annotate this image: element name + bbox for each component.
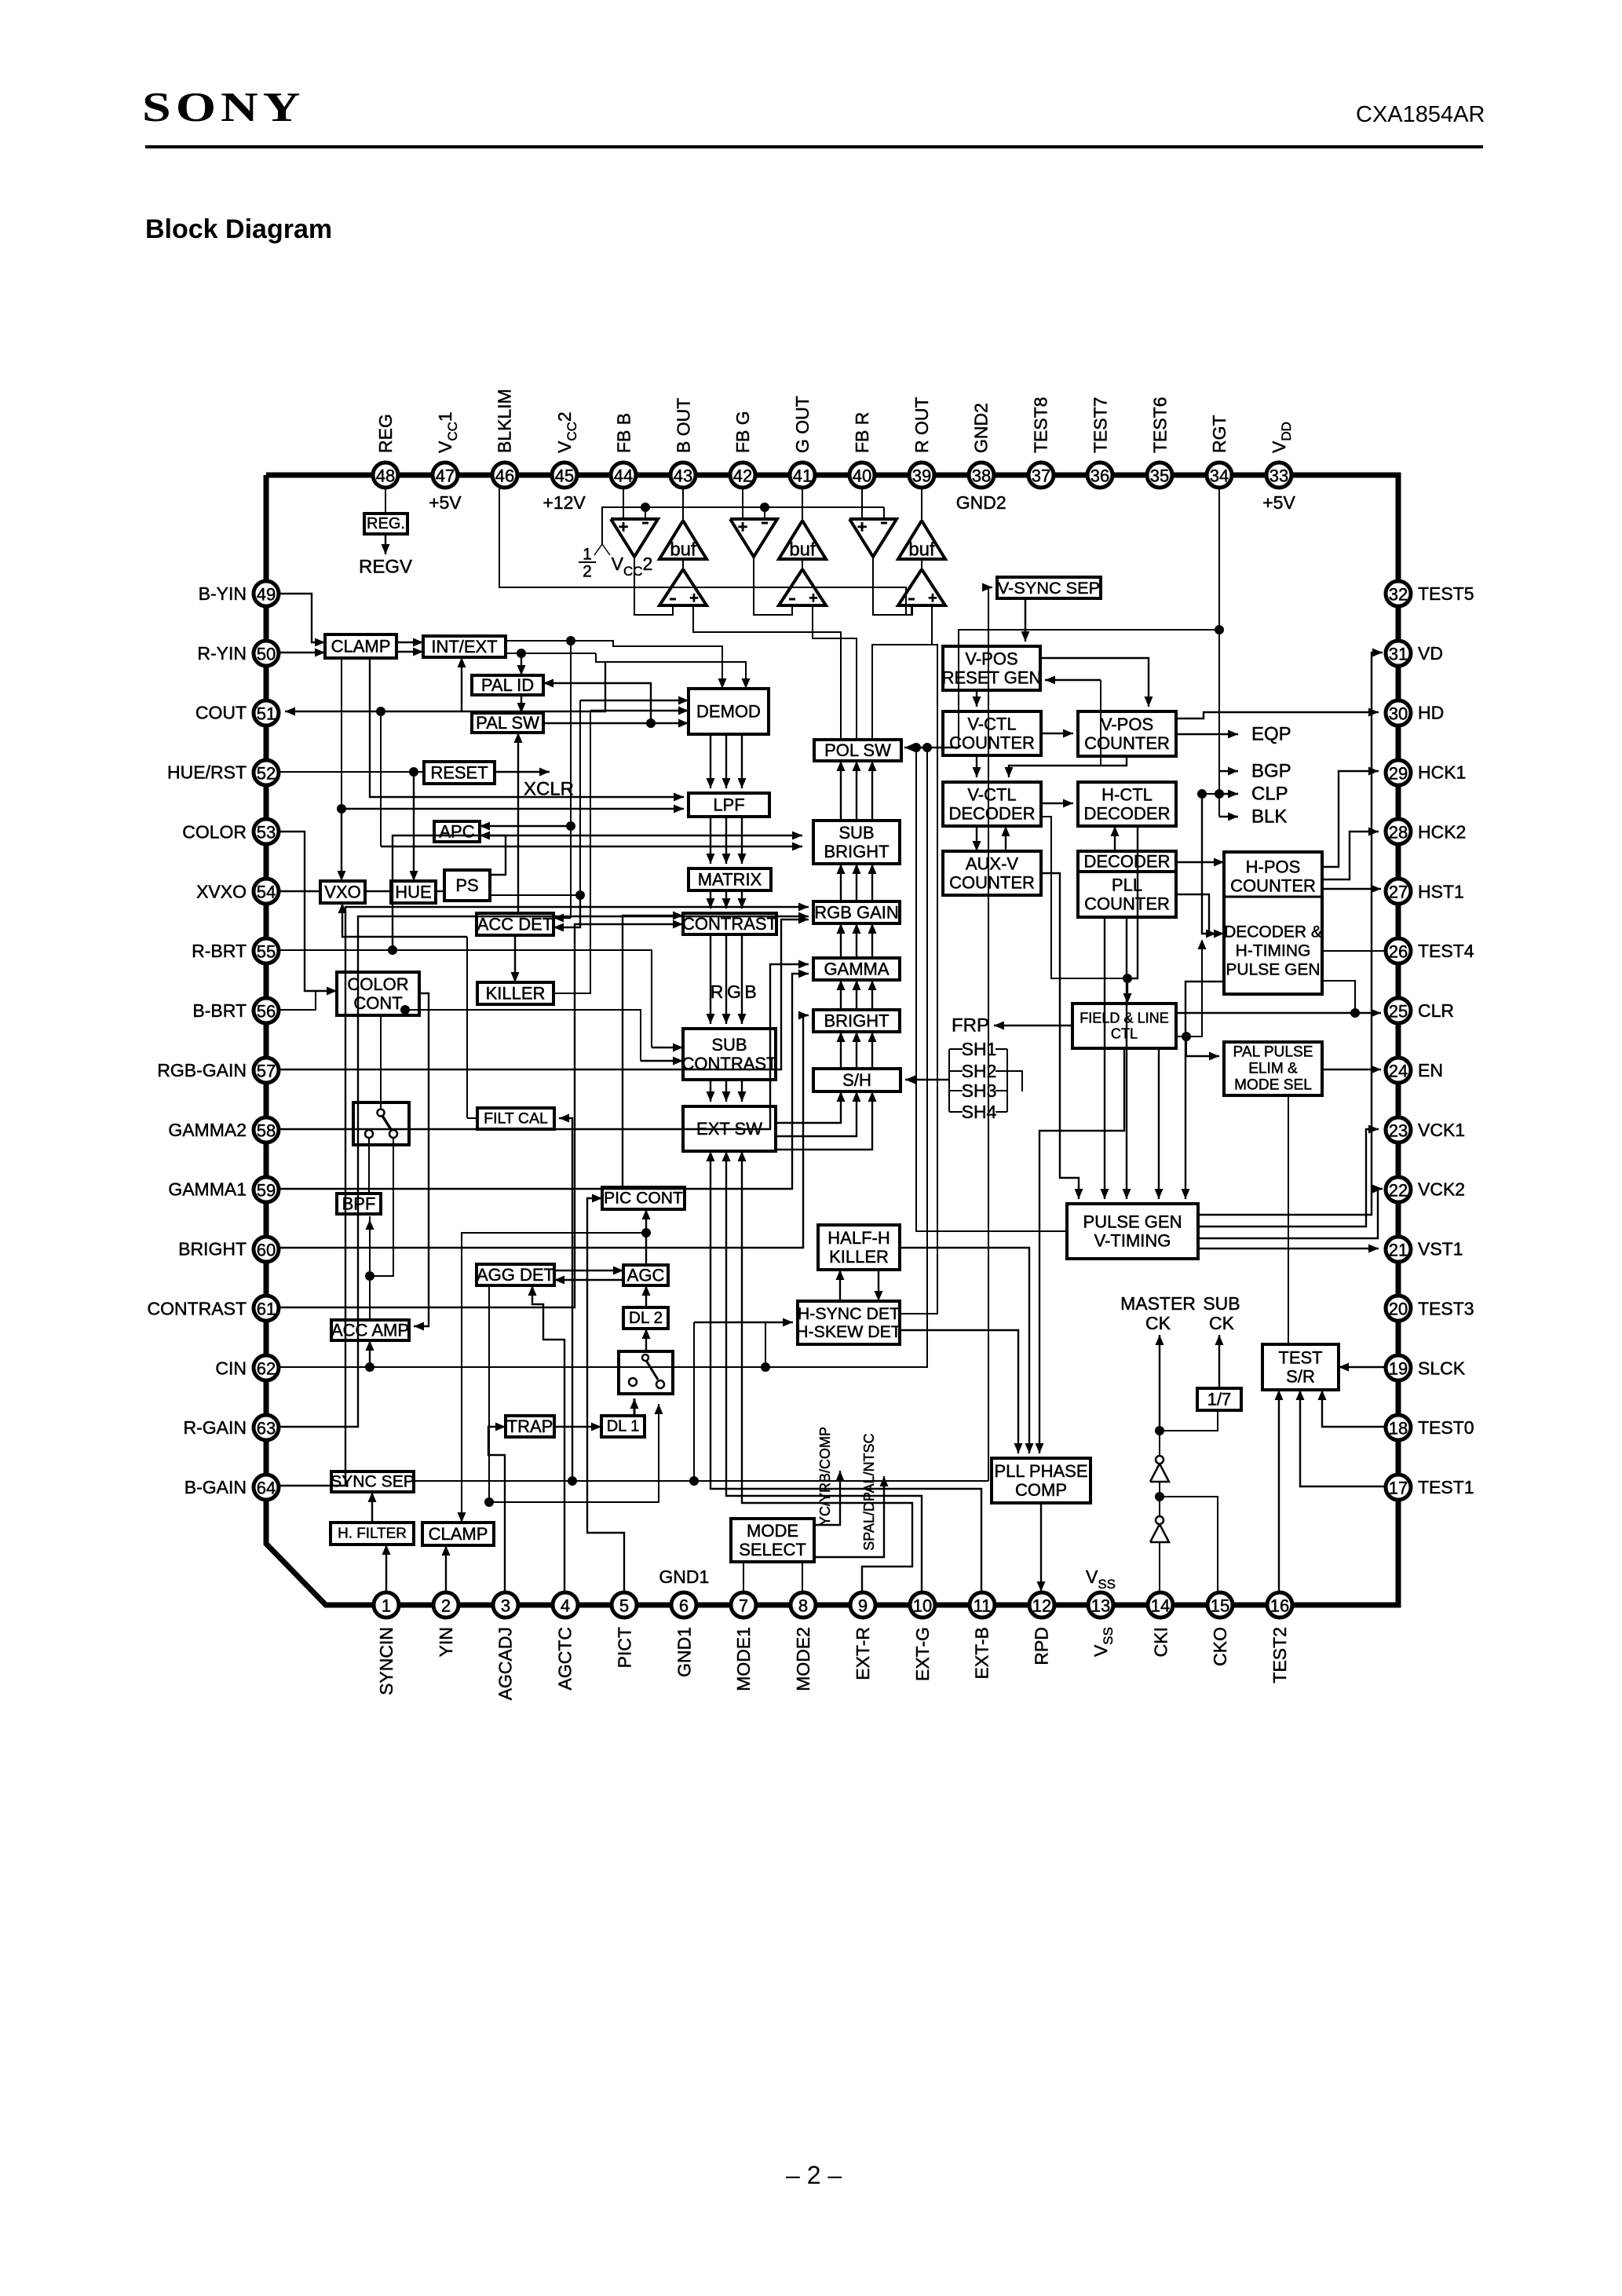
svg-text:SYNCIN: SYNCIN xyxy=(376,1627,396,1695)
svg-text:26: 26 xyxy=(1389,942,1408,962)
svg-text:TEST6: TEST6 xyxy=(1149,397,1170,453)
svg-text:30: 30 xyxy=(1389,704,1408,724)
wire pin18 TEST0 to TEST S/R xyxy=(1322,1390,1385,1427)
buffer buf G xyxy=(779,521,826,559)
wire CIN on to the right xyxy=(765,748,927,1367)
wire H FILTER to SYNC SEP xyxy=(371,1492,373,1523)
inverter 2 on CKI xyxy=(1150,1464,1169,1482)
wire buf to pin G OUT xyxy=(802,487,803,521)
wire S/H to BRIGHT x3 xyxy=(840,1032,842,1069)
pin 25 CLR xyxy=(1386,998,1411,1023)
wire feedback + B to POL SW column xyxy=(693,605,841,740)
pin 24 EN xyxy=(1386,1058,1411,1083)
svg-text:ACC AMP: ACC AMP xyxy=(331,1321,409,1340)
svg-text:BLKLIM: BLKLIM xyxy=(495,389,515,453)
feedback amp G xyxy=(779,569,826,605)
pin 29 HCK1 xyxy=(1386,760,1411,785)
pin 47 Vcc1 xyxy=(433,462,458,488)
svg-text:1: 1 xyxy=(583,546,592,564)
svg-text:REG.: REG. xyxy=(367,515,405,532)
wire RESET to XCLR xyxy=(495,771,550,773)
pin 39 R OUT xyxy=(909,462,934,488)
svg-text:AGC: AGC xyxy=(627,1266,665,1285)
wire pin61 CONTRAST to PIC CONT xyxy=(279,924,683,1307)
wire FRP from FIELD LINE CTL xyxy=(994,1025,1072,1026)
svg-text:55: 55 xyxy=(257,942,276,962)
svg-text:RPD: RPD xyxy=(1032,1627,1052,1665)
svg-text:+: + xyxy=(619,517,629,537)
PAL SW xyxy=(472,713,543,733)
wire DL2 to AGC xyxy=(645,1285,647,1307)
svg-text:18: 18 xyxy=(1389,1419,1408,1439)
svg-text:DECODER: DECODER xyxy=(948,804,1035,824)
wire REG to REGV xyxy=(385,487,386,514)
wire SH2 tail xyxy=(1007,1071,1022,1091)
PAL ID xyxy=(472,675,543,695)
svg-text:FB G: FB G xyxy=(732,411,753,453)
svg-text:CKO: CKO xyxy=(1210,1627,1230,1666)
wire SYNC SEP to V-SYNC SEP and H-SYNC DET xyxy=(414,1480,988,1482)
svg-text:TEST8: TEST8 xyxy=(1031,397,1051,453)
MATRIX xyxy=(689,868,771,890)
wire pin63 R-GAIN to RGB GAIN xyxy=(280,916,809,1427)
svg-text:CONTRAST: CONTRAST xyxy=(148,1298,247,1318)
svg-text:43: 43 xyxy=(674,466,692,486)
svg-text:PAL SW: PAL SW xyxy=(476,713,539,733)
op-amp B channel xyxy=(611,519,658,557)
svg-text:6: 6 xyxy=(679,1596,689,1616)
svg-text:H-SYNC DET: H-SYNC DET xyxy=(798,1304,900,1323)
pin 51 COUT xyxy=(254,700,279,726)
CONTRAST block xyxy=(683,913,776,934)
wire HUE to PS xyxy=(436,890,444,893)
svg-text:2: 2 xyxy=(441,1596,451,1616)
wire rail to op-amp - input B xyxy=(645,507,646,519)
wire switch S1 left contact to BPF top xyxy=(368,1138,370,1194)
svg-text:COLOR: COLOR xyxy=(347,974,408,994)
wire DECODER & H-TIMING to pin26 TEST4 xyxy=(1322,950,1385,952)
svg-text:YIN: YIN xyxy=(436,1627,456,1657)
svg-text:63: 63 xyxy=(257,1419,276,1439)
svg-text:SELECT: SELECT xyxy=(739,1540,806,1559)
svg-text:CK: CK xyxy=(1209,1313,1235,1333)
svg-text:10: 10 xyxy=(913,1596,932,1616)
pin 1 SYNCIN xyxy=(374,1592,399,1618)
svg-text:CLR: CLR xyxy=(1418,1000,1454,1021)
PLL PHASE COMP xyxy=(992,1458,1090,1503)
header rule xyxy=(145,145,1483,148)
wire op-amp output to feedback - B xyxy=(634,557,673,615)
svg-text:VCC2: VCC2 xyxy=(554,411,579,453)
wire CLP arrow xyxy=(1219,793,1238,795)
svg-text:PAL PULSE: PAL PULSE xyxy=(1233,1044,1313,1061)
wire to divider 1/7 xyxy=(1160,1410,1218,1431)
wire feedback + R to POL SW column xyxy=(872,605,932,740)
pin 12 RPD xyxy=(1029,1592,1054,1618)
wire POL SW up to feedback amps x3 xyxy=(840,632,842,740)
svg-text:DECODER: DECODER xyxy=(1083,852,1170,872)
H-SYNC DET H-SKEW DET xyxy=(798,1301,900,1344)
PS xyxy=(444,870,490,901)
pin 32 TEST5 xyxy=(1386,581,1411,606)
wire MODE SELECT pins 7 8 xyxy=(743,1562,744,1592)
wire rail to op-amp - input G xyxy=(764,507,765,519)
clamp CLAMP xyxy=(325,634,396,658)
wire RGT pin34 down to BGP CLP BLK xyxy=(1218,487,1220,817)
V-CTL DECODER xyxy=(943,782,1041,826)
svg-text:20: 20 xyxy=(1389,1300,1408,1319)
wire junction to PULSE GEN left xyxy=(911,743,921,752)
svg-text:62: 62 xyxy=(257,1359,276,1379)
inverter 1 on CKI xyxy=(1150,1524,1169,1542)
pin 10 EXT-G xyxy=(910,1592,935,1618)
svg-text:CK: CK xyxy=(1145,1313,1171,1333)
svg-text:HCK1: HCK1 xyxy=(1418,762,1466,783)
svg-text:buf: buf xyxy=(670,539,696,561)
svg-text:V-CTL: V-CTL xyxy=(967,784,1016,804)
pin 5 PICT xyxy=(612,1592,637,1618)
wire buf to pin B OUT xyxy=(682,487,684,521)
wire V-CTL COUNTER to V-POS COUNTER xyxy=(1041,733,1073,734)
wire PULSE GEN to pin23 VCK1 xyxy=(1198,1129,1379,1227)
svg-text:V-POS: V-POS xyxy=(965,649,1017,668)
svg-text:R-GAIN: R-GAIN xyxy=(184,1417,247,1438)
pin 31 VD xyxy=(1386,641,1411,666)
wire AGC PIC CONT link xyxy=(645,1209,647,1265)
wire VXO to HUE xyxy=(365,890,391,893)
switch box S1 xyxy=(353,1102,409,1145)
svg-text:35: 35 xyxy=(1150,466,1169,486)
svg-text:TEST3: TEST3 xyxy=(1418,1298,1474,1318)
wire COLOR CONT to switch S1 xyxy=(380,1015,382,1110)
wire MODE SELECT to SPAL/DPAL/NTSC xyxy=(814,1476,884,1557)
pin 45 Vcc2 xyxy=(552,462,577,488)
svg-text:MODE: MODE xyxy=(747,1521,798,1541)
svg-text:+: + xyxy=(689,590,699,607)
wire SUB CONTRAST to EXT SW x3 xyxy=(710,1080,711,1102)
wire junction to switch S1 right contact xyxy=(370,1138,393,1276)
wire FIELD CTL down to PULSE GEN xyxy=(1158,1048,1160,1199)
svg-text:SYNC SEP: SYNC SEP xyxy=(331,1473,415,1491)
svg-text:33: 33 xyxy=(1269,466,1288,486)
wire pin2 YIN to CLAMP2 xyxy=(445,1545,447,1592)
svg-text:PS: PS xyxy=(455,876,478,895)
wire branch to CLAMP2 xyxy=(462,1233,646,1512)
svg-text:16: 16 xyxy=(1270,1596,1289,1616)
pin 40 FB R xyxy=(849,462,875,488)
SONY logo xyxy=(142,84,305,132)
wire INT/EXT out B to DEMOD xyxy=(506,653,596,654)
H. FILTER xyxy=(331,1523,414,1545)
svg-text:COUT: COUT xyxy=(195,703,247,723)
V-POS COUNTER xyxy=(1078,711,1176,756)
wire pin14 CKI chain xyxy=(1159,1542,1160,1592)
demodulator DEMOD xyxy=(689,689,769,734)
pin 44 FB B xyxy=(611,462,636,488)
wire PAL PULSE to pin24 EN xyxy=(1322,1069,1381,1070)
svg-text:H-CTL: H-CTL xyxy=(1101,784,1153,804)
wire pin52 to RESET xyxy=(279,771,424,773)
ACC AMP xyxy=(331,1320,409,1340)
pin 9 EXT-R xyxy=(850,1592,875,1618)
wire DEMOD to LPF G xyxy=(725,734,727,788)
svg-text:4: 4 xyxy=(561,1596,570,1616)
pin 38 GND2 xyxy=(969,462,994,488)
wire V-CTL DECODER to AUX-V COUNTER xyxy=(976,826,977,851)
clamp 2 CLAMP xyxy=(422,1523,494,1545)
svg-text:VSS: VSS xyxy=(1086,1567,1116,1592)
pin 30 HD xyxy=(1386,700,1411,726)
wire DECODER to H-CTL DECODER xyxy=(1114,826,1116,851)
wire pin to op-amp + input B xyxy=(623,487,624,519)
BRIGHT block xyxy=(813,1010,900,1032)
svg-text:V-SYNC SEP: V-SYNC SEP xyxy=(998,578,1100,598)
wire RGB GAIN to SUB BRIGHT x3 xyxy=(840,864,842,901)
svg-text:VXO: VXO xyxy=(324,883,360,902)
feedback amp B xyxy=(659,569,707,605)
svg-text:SH1: SH1 xyxy=(962,1039,997,1059)
wire switch S2 to DL2 xyxy=(645,1329,647,1351)
wire pin49 to CLAMP xyxy=(279,594,325,642)
svg-text:R OUT: R OUT xyxy=(911,397,932,453)
wire 1/7 to SUB CK xyxy=(1218,1335,1220,1388)
svg-text:12: 12 xyxy=(1032,1596,1051,1616)
svg-text:VCC1: VCC1 xyxy=(435,411,460,453)
wire H-SYNC DET up right xyxy=(900,645,937,1314)
svg-text:CTL: CTL xyxy=(1111,1026,1138,1041)
wire CONTRAST to SUB CONTRAST x3 RGB xyxy=(710,934,711,1024)
wire pin55 on to SUB CONTRAST xyxy=(393,950,652,1047)
wire pin4 AGCTC to AGG DET xyxy=(532,1285,564,1592)
pin 2 YIN xyxy=(433,1592,458,1618)
pin 7 MODE1 xyxy=(731,1592,756,1618)
svg-text:SH2: SH2 xyxy=(962,1061,997,1081)
svg-text:CLAMP: CLAMP xyxy=(429,1524,488,1544)
svg-text:G OUT: G OUT xyxy=(792,396,813,453)
svg-text:B OUT: B OUT xyxy=(673,398,693,453)
wire PAL ID to PAL SW xyxy=(521,695,522,713)
svg-text:GND2: GND2 xyxy=(971,403,992,453)
pin 3 AGCADJ xyxy=(493,1592,518,1618)
svg-text:EQP: EQP xyxy=(1251,724,1291,745)
pin 17 TEST1 xyxy=(1386,1475,1411,1500)
wire pin60 BRIGHT xyxy=(279,1015,809,1248)
svg-text:FIELD & LINE: FIELD & LINE xyxy=(1080,1011,1169,1026)
svg-text:POL SW: POL SW xyxy=(824,740,891,760)
wire PLL COUNTER to DECODER & H-TIMING xyxy=(1176,894,1224,934)
pin 18 TEST0 xyxy=(1386,1415,1411,1440)
wire SH to S/H xyxy=(905,1079,949,1080)
svg-text:B-YIN: B-YIN xyxy=(199,583,247,604)
op-amp R channel xyxy=(849,519,897,557)
wire V-POS RESET GEN to V-POS COUNTER xyxy=(1040,658,1149,707)
svg-text:RGT: RGT xyxy=(1209,415,1229,453)
svg-text:23: 23 xyxy=(1389,1121,1408,1141)
svg-text:BRIGHT: BRIGHT xyxy=(824,842,889,861)
wire dot52 to HUE top xyxy=(413,772,415,881)
svg-text:3: 3 xyxy=(501,1596,510,1616)
svg-text:RESET GEN: RESET GEN xyxy=(942,668,1042,688)
wire INT/EXT to PAL ID xyxy=(521,653,522,675)
wire AGG DET AGC arrows xyxy=(554,1270,623,1271)
wire BRIGHT to GAMMA x3 xyxy=(840,980,842,1010)
int/ext switch INT/EXT xyxy=(423,636,506,657)
pin 23 VCK1 xyxy=(1386,1117,1411,1143)
svg-text:FB B: FB B xyxy=(613,413,634,453)
svg-text:CONT: CONT xyxy=(353,993,402,1013)
svg-text:+: + xyxy=(809,590,818,607)
svg-text:H. FILTER: H. FILTER xyxy=(338,1526,407,1542)
wire buf input R xyxy=(921,559,922,569)
wire buf input G xyxy=(802,559,803,569)
TEST S/R xyxy=(1262,1344,1339,1390)
vertical feed line x597 xyxy=(466,937,468,1118)
H-CTL DECODER xyxy=(1078,782,1176,826)
svg-text:46: 46 xyxy=(495,466,514,486)
wire CLP junction to DECODER & H-TIMING xyxy=(1202,793,1219,795)
wire pin17 TEST1 to TEST S/R xyxy=(1300,1390,1385,1486)
svg-text:TEST2: TEST2 xyxy=(1269,1627,1290,1684)
pin 19 SLCK xyxy=(1386,1355,1411,1380)
low pass filter LPF xyxy=(689,793,769,817)
wire RGT to POL SW xyxy=(959,630,1219,748)
pin 43 B OUT xyxy=(670,462,696,488)
wire DEMOD to LPF R xyxy=(710,734,711,788)
wire H-SYNC DET to PLL PHASE COMP xyxy=(900,1330,1018,1453)
pin 34 RGT xyxy=(1207,462,1232,488)
pin 15 CKO xyxy=(1207,1592,1233,1618)
svg-text:COUNTER: COUNTER xyxy=(949,873,1035,893)
wire pin51 COUT xyxy=(285,662,605,711)
wire TRAP to DL1 xyxy=(554,1426,601,1428)
svg-text:TEST0: TEST0 xyxy=(1418,1417,1474,1438)
1/2 Vcc2 rail xyxy=(602,507,884,544)
H-POS COUNTER and DECODER & H-TIMING PULSE GEN xyxy=(1224,852,1322,994)
svg-text:60: 60 xyxy=(257,1241,276,1260)
wire pin50 to CLAMP xyxy=(279,652,325,653)
buffer buf B xyxy=(659,521,707,559)
SUB BRIGHT xyxy=(813,821,900,864)
1/2 Vcc2 source symbol xyxy=(594,544,610,555)
PLL COUNTER xyxy=(1078,872,1176,917)
svg-text:GAMMA1: GAMMA1 xyxy=(168,1179,247,1200)
svg-text:EXT-B: EXT-B xyxy=(972,1627,992,1679)
svg-text:buf: buf xyxy=(908,539,935,561)
wire PLL COUNTER to PULSE GEN a xyxy=(1104,917,1105,1199)
svg-text:19: 19 xyxy=(1389,1359,1408,1379)
AGG DET xyxy=(477,1264,554,1285)
wire H-POS COUNTER to pin29 HCK1 xyxy=(1322,771,1379,867)
pin 22 VCK2 xyxy=(1386,1177,1411,1202)
wire V-SYNC SEP input arrow xyxy=(988,587,992,588)
svg-text:KILLER: KILLER xyxy=(486,984,546,1004)
pin 37 TEST8 xyxy=(1028,462,1054,488)
pin 46 BLKLIM xyxy=(492,462,517,488)
pin 21 VST1 xyxy=(1386,1237,1411,1262)
svg-text:22: 22 xyxy=(1389,1181,1408,1201)
wire DL1 to switch S2 xyxy=(634,1398,636,1416)
wire PIC CONT to CONTRAST block xyxy=(623,916,683,1187)
PULSE GEN V-TIMING xyxy=(1067,1204,1198,1259)
wire CKO branch xyxy=(1160,1497,1218,1592)
wire into V-POS RESET GEN right xyxy=(1045,679,1101,681)
wire AUX-V COUNTER to V-CTL DECODER xyxy=(1005,826,1006,851)
svg-text:HUE/RST: HUE/RST xyxy=(167,762,247,783)
wire PS to DEMOD xyxy=(490,894,580,896)
svg-text:S/R: S/R xyxy=(1286,1367,1315,1387)
svg-text:GND1: GND1 xyxy=(674,1627,694,1677)
svg-text:B-GAIN: B-GAIN xyxy=(184,1477,247,1497)
HALF-H KILLER xyxy=(818,1225,900,1270)
wire PAL SW to DEMOD with dot xyxy=(543,722,689,724)
pin 16 TEST2 xyxy=(1267,1592,1292,1618)
svg-text:45: 45 xyxy=(555,466,574,486)
wire FILT CAL left to VXO feed line xyxy=(467,1117,477,1119)
svg-text:1/7: 1/7 xyxy=(1207,1390,1232,1409)
svg-text:14: 14 xyxy=(1151,1596,1170,1616)
svg-text:53: 53 xyxy=(257,823,276,843)
svg-text:59: 59 xyxy=(257,1181,276,1201)
wire MODE SELECT to YC/YRB/COMP xyxy=(814,1471,840,1525)
wire PULSE GEN to pin21 VST1 xyxy=(1198,1248,1379,1249)
svg-text:H-SKEW DET: H-SKEW DET xyxy=(796,1322,901,1341)
wire SH bracket xyxy=(948,1049,950,1112)
wire pin16 TEST2 to TEST S/R xyxy=(1278,1390,1280,1592)
svg-text:COUNTER: COUNTER xyxy=(1230,876,1316,896)
svg-text:B-BRT: B-BRT xyxy=(192,1000,247,1021)
V-SYNC SEP xyxy=(997,577,1101,598)
wire BLKLIM pin46 xyxy=(499,487,912,615)
svg-text:DECODER &: DECODER & xyxy=(1224,923,1322,941)
wire pin57 RGB-GAIN xyxy=(279,919,809,1069)
svg-text:HALF-H: HALF-H xyxy=(827,1228,890,1248)
svg-text:MODE2: MODE2 xyxy=(793,1627,813,1691)
svg-text:DEMOD: DEMOD xyxy=(696,702,761,722)
pin 4 AGCTC xyxy=(553,1592,578,1618)
wire INT/EXT vertical to APC and ACC DET xyxy=(570,641,572,918)
AUX-V COUNTER xyxy=(943,851,1041,895)
svg-text:56: 56 xyxy=(257,1002,276,1022)
svg-text:+: + xyxy=(857,517,868,537)
svg-text:AUX-V: AUX-V xyxy=(966,854,1019,873)
svg-text:COLOR: COLOR xyxy=(182,821,247,842)
svg-text:48: 48 xyxy=(376,466,395,486)
wire buf input B xyxy=(682,559,684,569)
pin 57 RGB-GAIN xyxy=(254,1058,279,1083)
switch box S2 xyxy=(619,1351,673,1394)
wire V-POS RESET GEN to V-CTL COUNTER xyxy=(976,690,977,707)
svg-text:XVXO: XVXO xyxy=(196,881,247,901)
svg-text:CONTRAST: CONTRAST xyxy=(682,1054,777,1073)
sample hold S/H xyxy=(813,1069,901,1091)
svg-text:EXT-R: EXT-R xyxy=(853,1627,873,1680)
wire CLAMP to INT/EXT lower xyxy=(396,651,423,653)
SYNC SEP xyxy=(331,1472,414,1492)
svg-text:RGB GAIN: RGB GAIN xyxy=(814,903,899,923)
wire PS to APC loop xyxy=(480,835,506,875)
wire pin64 B-GAIN to RGB GAIN xyxy=(280,907,809,1486)
svg-text:V-POS: V-POS xyxy=(1101,715,1153,734)
svg-text:SLCK: SLCK xyxy=(1418,1358,1466,1378)
wire COLOR CONT to ACC AMP xyxy=(414,993,429,1326)
HUE xyxy=(391,881,436,903)
pin 26 TEST4 xyxy=(1386,938,1411,963)
pin 64 B-GAIN xyxy=(254,1475,279,1500)
part number CXA1854AR xyxy=(1356,102,1485,128)
delay line DL 2 xyxy=(623,1307,668,1329)
pin 28 HCK2 xyxy=(1386,819,1411,844)
pin 6 GND1 xyxy=(671,1592,696,1618)
